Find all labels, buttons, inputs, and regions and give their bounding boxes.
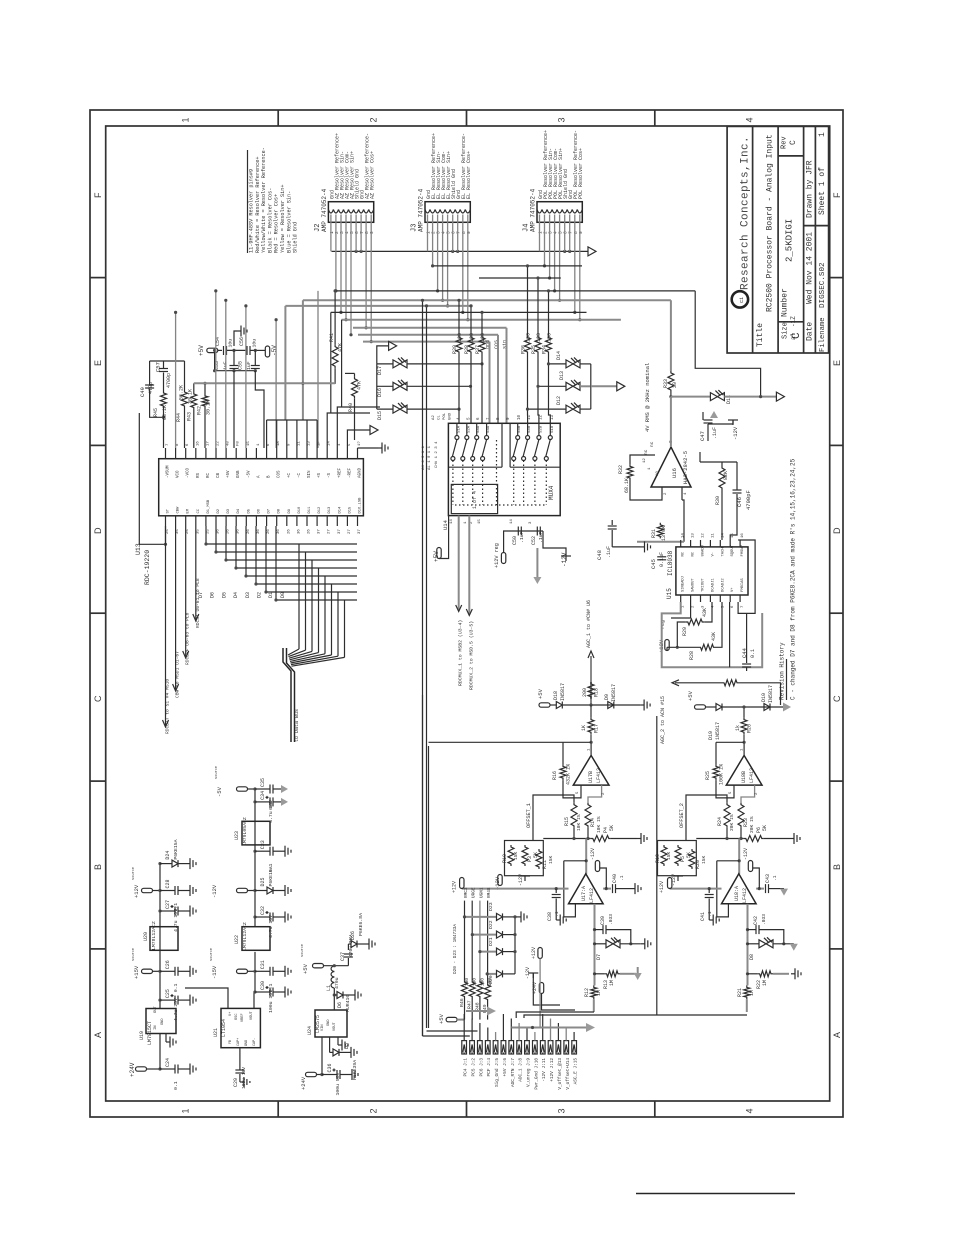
- ground at R13: [637, 967, 639, 973]
- R30 C46 top rail: [700, 461, 737, 463]
- svg-text:R29: R29: [682, 627, 688, 636]
- svg-text:15K: 15K: [513, 851, 519, 860]
- op-amp U18B LF412: [726, 755, 762, 785]
- op-amp U16 HA3-2842-5: [651, 447, 691, 487]
- capacitor C25 4.7u 25V: [158, 999, 161, 1002]
- top rail for R44 R45 C49: [150, 360, 185, 362]
- svg-text:36: 36: [217, 529, 221, 534]
- svg-text:17: 17: [206, 441, 210, 446]
- resistor R40 47K: [352, 377, 358, 399]
- U13 left feedback wire: [139, 413, 165, 544]
- svg-text:C49: C49: [139, 387, 146, 397]
- connector pin PCF J:4: [485, 1041, 490, 1054]
- connector J2 AMP 747052-4: [328, 202, 373, 223]
- gnd bus line for connectors: [332, 250, 589, 252]
- diode D13: [566, 382, 573, 390]
- svg-text:NC: NC: [692, 551, 696, 556]
- svg-text:39: 39: [672, 382, 678, 388]
- title block cell separators: [778, 321, 804, 323]
- svg-text:A: A: [832, 1032, 842, 1038]
- svg-text:36: 36: [257, 529, 261, 534]
- svg-text:1k: 1k: [735, 725, 741, 731]
- svg-text:Sheet 1 of: Sheet 1 of: [818, 167, 827, 215]
- svg-text:URGE: URGE: [472, 887, 477, 898]
- svg-text:source: source: [209, 948, 214, 961]
- diode bank D12-14 wiring: [580, 363, 591, 365]
- svg-text:C24: C24: [165, 1058, 171, 1067]
- svg-text:.1uF: .1uF: [606, 546, 612, 558]
- svg-text:P6KE39A: P6KE39A: [352, 1060, 358, 1080]
- svg-text:RC: RC: [207, 472, 211, 478]
- mux block U14 outline: [448, 423, 560, 515]
- svg-text:LM78L12ACZ: LM78L12ACZ: [151, 921, 157, 950]
- resistor R34 100: [546, 336, 552, 354]
- svg-text:C47: C47: [699, 431, 706, 441]
- svg-text:D6: D6: [210, 592, 216, 598]
- svg-text:10K 1%: 10K 1%: [576, 814, 582, 831]
- svg-text:UGN1: UGN1: [479, 887, 484, 898]
- off-page arrow right of D11: [776, 392, 784, 401]
- diode D22 row: [472, 934, 496, 936]
- svg-text:SINEADJ: SINEADJ: [682, 576, 686, 592]
- svg-text:D4: D4: [237, 508, 241, 513]
- svg-text:SIN: SIN: [308, 470, 312, 478]
- svg-text:VCO: VCO: [177, 470, 181, 478]
- bottom interconnect horizontals: [423, 1035, 470, 1037]
- svg-text:RDC-19220: RDC-19220: [144, 550, 151, 585]
- svg-text:F: F: [93, 192, 103, 198]
- svg-text:S4A: S4A: [487, 425, 491, 433]
- svg-text:ICL8038: ICL8038: [667, 550, 674, 576]
- svg-text:0.1: 0.1: [268, 863, 274, 872]
- svg-text:D3: D3: [245, 592, 251, 598]
- svg-text:Yellow = Resolver Sin+: Yellow = Resolver Sin+: [280, 185, 286, 254]
- svg-text:RMC3: RMC3: [464, 887, 469, 898]
- svg-text:Title: Title: [756, 323, 765, 347]
- svg-text:R14: R14: [590, 818, 596, 827]
- svg-text:10u: 10u: [228, 339, 234, 348]
- ground arrow at D10: [783, 703, 791, 712]
- resistor R23 20K 1%: [738, 803, 744, 828]
- svg-text:5K: 5K: [762, 825, 768, 831]
- svg-text:C: C: [93, 695, 103, 702]
- svg-text:5: 5: [558, 231, 564, 234]
- svg-text:C34: C34: [260, 791, 266, 800]
- diode D8: [748, 943, 760, 945]
- svg-text:U24: U24: [307, 1026, 313, 1035]
- gray signal wire down from U18A: [747, 904, 749, 986]
- svg-text:15K: 15K: [666, 851, 672, 860]
- IC U15 ICL8038: [676, 547, 748, 595]
- svg-text:U16: U16: [671, 468, 678, 478]
- svg-text:48: 48: [227, 441, 231, 446]
- diode D20 row: [487, 973, 496, 975]
- diode D11 transzorb: [710, 393, 717, 401]
- svg-text:Pwr_Gnd J:10: Pwr_Gnd J:10: [534, 1058, 539, 1090]
- svg-text:LM79L12ACZ: LM79L12ACZ: [242, 922, 248, 951]
- resistor R45 68.1K: [161, 391, 167, 408]
- svg-text:5K: 5K: [609, 825, 615, 831]
- svg-text:C28: C28: [165, 879, 171, 888]
- svg-text:U17:A: U17:A: [581, 886, 587, 901]
- svg-text:F8: F8: [237, 441, 241, 446]
- svg-text:+24V: +24V: [300, 1076, 307, 1090]
- svg-text:9: 9: [369, 231, 375, 234]
- svg-text:14: 14: [682, 533, 686, 538]
- regulator U23 LM79L05ACZ: [242, 821, 270, 845]
- svg-text:1K: 1K: [581, 725, 587, 731]
- svg-text:FB: FB: [229, 1040, 233, 1044]
- svg-text:D: D: [93, 527, 103, 534]
- svg-text:+5V: +5V: [227, 470, 231, 478]
- svg-text:GNB: GNB: [237, 470, 241, 478]
- svg-text:source: source: [300, 944, 305, 957]
- svg-text:RDCERF U6-63 to PL8: RDCERF U6-63 to PL8: [185, 612, 191, 665]
- bus staircase to data bus: [288, 649, 299, 655]
- svg-text:Black = Resolver Cos-: Black = Resolver Cos-: [267, 188, 273, 253]
- svg-text:12: 12: [539, 414, 543, 420]
- svg-text:S4B: S4B: [518, 425, 522, 433]
- svg-text:PC5 J:2: PC5 J:2: [472, 1058, 477, 1077]
- svg-text:-12V: -12V: [211, 884, 218, 898]
- svg-text:R35: R35: [531, 345, 537, 354]
- svg-text:VOUT: VOUT: [250, 1011, 254, 1020]
- svg-text:CH# 1 2 3 4: CH# 1 2 3 4: [435, 441, 439, 468]
- svg-text:AGND: AGND: [359, 467, 363, 478]
- svg-text:C40: C40: [612, 874, 618, 883]
- svg-text:-5V: -5V: [271, 345, 278, 356]
- diode bank right vertical: [514, 917, 516, 974]
- resistor R13 1M: [605, 971, 620, 977]
- svg-text:36: 36: [277, 529, 281, 534]
- svg-text:22: 22: [217, 441, 221, 446]
- svg-text:C32: C32: [260, 906, 266, 915]
- diode D10 IN5817: [764, 704, 770, 711]
- svg-text:0.1: 0.1: [750, 649, 756, 658]
- U13 data bus matrix: [205, 526, 207, 544]
- svg-text:PCF J:4: PCF J:4: [487, 1058, 492, 1077]
- svg-text:26: 26: [287, 529, 291, 534]
- svg-text:R31: R31: [651, 529, 657, 538]
- svg-text:-REF: -REF: [348, 467, 352, 478]
- resistors R46-R49 100: [462, 980, 468, 998]
- op-amp U17A LF412: [569, 874, 604, 904]
- svg-text:100: 100: [457, 333, 463, 342]
- svg-text:IN: IN: [154, 1025, 158, 1030]
- svg-text:56.2K: 56.2K: [179, 385, 185, 400]
- svg-text:U15: U15: [666, 588, 673, 599]
- svg-text:AMP 747052-4: AMP 747052-4: [418, 188, 425, 232]
- svg-text:to Data Bus: to Data Bus: [294, 709, 300, 742]
- svg-text:1N5817: 1N5817: [715, 722, 721, 740]
- svg-text:.033: .033: [761, 914, 767, 925]
- svg-text:35: 35: [176, 529, 180, 534]
- svg-text:1?: 1?: [358, 441, 362, 446]
- wires from J pins up: [463, 1014, 465, 1041]
- negative rail: [254, 789, 256, 927]
- svg-text:SAWOUT: SAWOUT: [692, 578, 696, 592]
- svg-text:RDCBIT to S1 #4 MS10: RDCBIT to S1 #4 MS10: [165, 679, 171, 734]
- svg-text:D23: D23: [488, 902, 494, 911]
- svg-text:R18: R18: [594, 688, 600, 697]
- svg-text:AMP 747052-4: AMP 747052-4: [321, 188, 328, 232]
- svg-text:D16: D16: [377, 388, 383, 397]
- resistor R41 47K: [332, 345, 338, 369]
- svg-text:source: source: [131, 867, 136, 880]
- diode D19 1N5817: [716, 704, 722, 711]
- svg-text:.033: .033: [608, 914, 614, 925]
- resistor R30 82K: [719, 466, 725, 490]
- svg-text:100u 16V: 100u 16V: [268, 990, 274, 1013]
- capacitor C28 0.1: [158, 889, 161, 892]
- svg-text:Blue = Resolver Sin-: Blue = Resolver Sin-: [286, 191, 292, 253]
- U13 bus vertical bundle: [298, 544, 300, 649]
- svg-text:16: 16: [196, 441, 200, 446]
- svg-text:TACH: TACH: [721, 547, 725, 556]
- svg-text:.1: .1: [619, 875, 625, 881]
- potentiometer P4 5K: [591, 836, 611, 842]
- svg-text:-VSUM: -VSUM: [167, 465, 171, 478]
- svg-text:26: 26: [308, 529, 312, 534]
- svg-text:R19: R19: [655, 854, 661, 863]
- capacitor C33 0.1: [253, 850, 256, 853]
- svg-text:5: 5: [349, 231, 355, 234]
- svg-text:16: 16: [741, 533, 745, 538]
- svg-text:CBW to MSD1 U1-67: CBW to MSD1 U1-67: [175, 651, 181, 698]
- svg-text:GND: GND: [161, 1019, 165, 1025]
- connector pin AGC_RTN J:7: [509, 1041, 514, 1054]
- mux internal dotted lines: [452, 461, 454, 506]
- U21 VOUT wire to negative rail: [254, 992, 255, 1008]
- svg-text:R24: R24: [717, 817, 723, 826]
- svg-text:Research Concepts,Inc.: Research Concepts,Inc.: [740, 136, 752, 290]
- svg-text:-12V: -12V: [732, 426, 739, 440]
- svg-text:R43: R43: [187, 412, 193, 421]
- ground at R22: [791, 973, 795, 975]
- svg-text:B: B: [93, 864, 103, 870]
- svg-text:1 of 4: 1 of 4: [472, 491, 478, 509]
- svg-text:D14: D14: [338, 506, 342, 514]
- svg-text:Size: Size: [782, 322, 790, 339]
- svg-text:26: 26: [267, 529, 271, 534]
- U13 control signal lines and labels: [165, 526, 167, 726]
- svg-text:D12: D12: [556, 396, 562, 405]
- svg-text:+12V: +12V: [659, 881, 665, 893]
- svg-text:+12V J:12: +12V J:12: [550, 1058, 555, 1082]
- svg-text:LF412: LF412: [742, 888, 748, 903]
- svg-text:RM48: RM48: [487, 887, 492, 898]
- svg-text:47K: 47K: [357, 381, 363, 390]
- svg-text:V_unreg J:9: V_unreg J:9: [527, 1058, 532, 1087]
- harness horizontal bus wires: [335, 290, 695, 292]
- sheet outer border: [90, 110, 843, 1117]
- svg-text:4700pF: 4700pF: [745, 490, 752, 510]
- svg-text:200: 200: [582, 688, 588, 697]
- svg-text:37: 37: [358, 529, 362, 534]
- svg-text:2: 2: [543, 231, 549, 234]
- svg-text:4.7u 25V: 4.7u 25V: [173, 998, 179, 1021]
- svg-text:IN5817: IN5817: [560, 683, 566, 701]
- svg-text:C56: C56: [239, 337, 245, 346]
- svg-text:4V RMS @ 2KHz nominal: 4V RMS @ 2KHz nominal: [644, 363, 651, 432]
- resistor R18 200: [588, 682, 594, 699]
- svg-text:2: 2: [369, 117, 379, 122]
- svg-text:S2A: S2A: [467, 425, 471, 433]
- svg-text:EM: EM: [187, 508, 191, 513]
- harness: J3 pin drops: [427, 215, 429, 252]
- svg-text:R34: R34: [542, 345, 548, 354]
- company logo circle: [732, 291, 748, 307]
- stray scan line bottom: [636, 1193, 795, 1195]
- svg-text:C45: C45: [650, 559, 657, 569]
- svg-text:D0: D0: [280, 592, 286, 598]
- svg-text:1: 1: [818, 132, 827, 137]
- svg-text:nc: nc: [644, 449, 649, 455]
- svg-text:R12: R12: [584, 988, 590, 997]
- capacitor C31 0.1: [253, 970, 256, 973]
- svg-text:C39: C39: [600, 916, 606, 925]
- feedback wire U18B: [716, 741, 744, 743]
- R28 43K resistor: [699, 644, 716, 650]
- svg-text:-1Z: -1Z: [790, 316, 797, 327]
- svg-text:5: 5: [446, 231, 452, 234]
- diode D24 P6KE15A: [158, 862, 161, 865]
- svg-text:D17: D17: [377, 366, 383, 375]
- resistor R12 1M: [591, 985, 597, 999]
- resistor R31 13.0K: [657, 523, 663, 539]
- AGND arrow and ground: [370, 426, 378, 435]
- svg-text:14: 14: [450, 519, 454, 524]
- svg-text:1F: 1F: [318, 441, 322, 446]
- svg-text:+5V J:6: +5V J:6: [503, 1058, 508, 1077]
- resistor R44 56.2K: [182, 390, 188, 408]
- capacitor C26 0.1: [158, 970, 161, 973]
- svg-text:C48: C48: [596, 550, 603, 560]
- svg-text:15K: 15K: [548, 855, 554, 864]
- svg-text:OUT: OUT: [154, 1005, 158, 1013]
- svg-text:15: 15: [478, 519, 482, 524]
- svg-text:VOUT: VOUT: [333, 1022, 337, 1031]
- svg-text:ST: ST: [167, 508, 171, 513]
- svg-text:D5: D5: [247, 508, 251, 513]
- stage node wire: [543, 838, 591, 840]
- wires R34-36 up to harness: [527, 266, 529, 336]
- capacitor C36 100u 50v: [320, 1073, 323, 1076]
- svg-text:100: 100: [536, 333, 542, 342]
- svg-text:+5V: +5V: [302, 963, 309, 974]
- connector pin Sig_Gnd J:5: [493, 1041, 498, 1054]
- connector J3 AMP 747052-4: [425, 202, 470, 223]
- svg-text:R42: R42: [197, 406, 203, 415]
- gray output bus to AGC arrow: [511, 1027, 586, 1029]
- svg-text:RC2500 Processor Board - Analo: RC2500 Processor Board - Analog Input: [766, 134, 775, 312]
- resistor R17 1K: [588, 718, 594, 735]
- svg-text:C: C: [791, 332, 803, 339]
- zone digit ticks top/bottom edges: [277, 110, 279, 126]
- resistor R25 100K 1%: [713, 764, 719, 780]
- svg-text:U22: U22: [234, 935, 240, 944]
- svg-text:LM79L05ACZ: LM79L05ACZ: [242, 817, 248, 846]
- diode bank D15-17 left wire and arrow: [377, 363, 393, 365]
- svg-text:13: 13: [308, 441, 312, 446]
- R29 43K resistor: [686, 619, 704, 625]
- diode D21 row: [480, 951, 497, 953]
- harness left drops to U13 pins: [302, 300, 304, 420]
- svg-text:AL 1 0 1 1: AL 1 0 1 1: [428, 445, 432, 470]
- mux switch group sub-boxes: [448, 466, 502, 468]
- svg-text:7: 7: [568, 231, 574, 234]
- svg-text:10u: 10u: [252, 339, 258, 348]
- svg-text:Drawn by JFR: Drawn by JFR: [806, 160, 815, 218]
- output wire U17B: [590, 742, 592, 755]
- U13 analog pin wires up to harness: [266, 420, 268, 448]
- svg-text:LF412: LF412: [589, 888, 595, 903]
- svg-text:1M: 1M: [609, 980, 615, 986]
- stage node wire: [696, 838, 744, 840]
- pot block R1 network box: [505, 841, 544, 876]
- svg-text:C38: C38: [547, 912, 553, 921]
- svg-text:+REF: +REF: [338, 467, 342, 478]
- svg-text:470u: 470u: [334, 977, 340, 989]
- potentiometer P5 5K: [675, 845, 681, 866]
- svg-text:.1uF: .1uF: [519, 531, 525, 543]
- svg-text:U23: U23: [234, 831, 240, 840]
- svg-text:+C: +C: [288, 472, 292, 478]
- svg-text:R23: R23: [743, 818, 749, 827]
- wire offset net vertical pair: [422, 695, 424, 1036]
- svg-text:R38: R38: [464, 345, 470, 354]
- connector pin ADC_1 J:8: [517, 1041, 522, 1054]
- V- rail gray wire: [670, 888, 722, 890]
- svg-text:D10: D10: [761, 693, 767, 702]
- resistor R43 30.1K: [191, 392, 197, 410]
- title block row lines: [752, 126, 754, 353]
- svg-text:13: 13: [551, 414, 555, 420]
- svg-text:Red/White = Resolver Reference: Red/White = Resolver Reference+: [255, 156, 261, 253]
- svg-text:GND: GND: [245, 1040, 249, 1046]
- svg-text:15: 15: [731, 533, 735, 538]
- svg-text:2: 2: [334, 231, 340, 234]
- svg-text:AGC_2 to ACN #15: AGC_2 to ACN #15: [660, 696, 666, 744]
- connector pin Pwr_Gnd J:10: [533, 1041, 538, 1054]
- ladder drops to U13 pins: [233, 371, 235, 448]
- svg-text:10K 1%: 10K 1%: [596, 816, 602, 833]
- svg-text:CL: CL: [438, 415, 442, 420]
- zone letter ticks left/right edges: [90, 277, 106, 279]
- svg-text:R39: R39: [452, 345, 458, 354]
- svg-text:18: 18: [277, 441, 281, 446]
- svg-text:RDCMUX_1 to MSB2 (U3-4): RDCMUX_1 to MSB2 (U3-4): [458, 620, 464, 686]
- svg-text:R11: R11: [542, 860, 548, 869]
- svg-text:C43: C43: [765, 874, 771, 883]
- svg-text:30.1K: 30.1K: [206, 400, 212, 415]
- svg-text:+S: +S: [318, 472, 322, 478]
- svg-text:nc: nc: [650, 441, 655, 447]
- wire + input U17B: [588, 785, 602, 803]
- svg-text:C26: C26: [165, 960, 171, 969]
- svg-text:0.1: 0.1: [268, 984, 274, 993]
- svg-text:3: 3: [557, 117, 567, 122]
- svg-text:68.1K: 68.1K: [624, 478, 630, 493]
- svg-text:Sig_Gnd J:5: Sig_Gnd J:5: [495, 1058, 500, 1087]
- svg-text:100: 100: [547, 333, 553, 342]
- svg-text:D20: D20: [488, 975, 494, 984]
- svg-text:.1: .1: [707, 911, 713, 917]
- svg-text:CBW: CBW: [177, 506, 181, 514]
- svg-text:14: 14: [328, 441, 332, 446]
- svg-text:2: 2: [369, 1108, 379, 1113]
- svg-text:+12V: +12V: [531, 947, 537, 959]
